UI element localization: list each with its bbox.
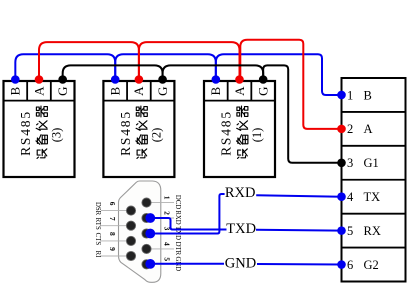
wire: blue RXD wire from DB9 pin 3 [151, 194, 225, 234]
svg-text:7: 7 [108, 217, 117, 221]
device box U2: RS485 instrument (2) [103, 81, 174, 177]
pin 5 of DB9 [142, 260, 151, 269]
svg-text:RX: RX [364, 224, 381, 238]
svg-text:GND: GND [225, 256, 256, 272]
svg-text:(1): (1) [250, 128, 264, 143]
node: terminal 5 dot [337, 226, 346, 235]
pin 3 of DB9 [142, 229, 151, 238]
wire: leader line pin 2 [147, 217, 175, 219]
wire: leader line pin 8 [101, 240, 131, 242]
wire: blue TXD wire from DB9 pin 2 [151, 218, 227, 230]
svg-text:A: A [31, 86, 46, 96]
wire: black G bus box(3) to box(2) [63, 65, 163, 79]
svg-text:TXD: TXD [226, 221, 256, 237]
node: blue junction dot pin 2 [145, 213, 155, 223]
svg-text:RTS: RTS [94, 218, 101, 230]
wire: blue B bus box(1) to terminal 1 B [216, 54, 342, 95]
svg-text:(3): (3) [50, 128, 64, 143]
node: A dot box (2) [135, 75, 144, 84]
node: blue junction dot pin 5 [145, 259, 155, 269]
node: terminal 4 dot [337, 192, 346, 201]
svg-text:RXD: RXD [174, 210, 181, 224]
svg-text:5: 5 [162, 257, 171, 261]
node: B dot box (3) [11, 75, 20, 84]
svg-text:TX: TX [364, 190, 381, 204]
wire: blue TXD wire to terminal 5 RX [256, 229, 342, 232]
node: G dot box (1) [259, 75, 268, 84]
wire: blue GND wire to terminal 6 G2 [257, 263, 342, 266]
pin 9 of DB9 [126, 251, 135, 260]
svg-text:RS485: RS485 [18, 110, 33, 156]
wire: leader line pin 9 [101, 255, 131, 257]
node: A dot box (1) [235, 75, 244, 84]
device box U3: RS485 instrument (3) [4, 81, 75, 177]
node: blue junction dot pin 3 [145, 229, 155, 239]
node: G dot box (3) [58, 75, 67, 84]
svg-text:6: 6 [347, 258, 353, 272]
svg-text:B: B [208, 87, 223, 96]
wire: black G bus box(1) to terminal 3 G1 [263, 65, 341, 162]
terminal block TB1 [342, 78, 406, 282]
svg-text:2: 2 [162, 211, 171, 215]
svg-text:B: B [8, 87, 23, 96]
wire: blue B bus box(2) to box(1) [115, 54, 216, 79]
label: Chinese she-bei-yi-qi box (1) [237, 106, 248, 158]
svg-text:5: 5 [347, 224, 353, 238]
svg-text:DCD: DCD [174, 195, 181, 209]
svg-text:8: 8 [108, 232, 117, 236]
svg-text:G2: G2 [364, 258, 379, 272]
label: Chinese she-bei-yi-qi box (3) [36, 106, 47, 158]
pin 7 of DB9 [126, 221, 135, 230]
svg-text:RS485: RS485 [118, 110, 133, 156]
wire: red A bus box(1) to terminal 2 A [240, 40, 341, 129]
device box U1: RS485 instrument (1) [204, 81, 275, 177]
svg-text:G1: G1 [364, 156, 379, 170]
wire: red A bus box(3) to box(2) [39, 42, 139, 79]
wire: black G bus box(2) to box(1) [163, 65, 264, 79]
svg-text:G: G [55, 87, 70, 96]
svg-text:G: G [255, 87, 270, 96]
node: terminal 3 dot [337, 158, 346, 167]
pin 1 of DB9 [142, 198, 151, 207]
svg-text:A: A [364, 122, 373, 136]
svg-text:9: 9 [108, 247, 117, 251]
node: B dot box (2) [111, 75, 120, 84]
wire: blue B bus box(3) to box(2) [15, 54, 115, 79]
wire: leader line pin 7 [101, 225, 131, 227]
svg-text:A: A [232, 86, 247, 96]
svg-text:RS485: RS485 [219, 110, 234, 156]
svg-text:4: 4 [347, 190, 354, 204]
wire: blue RXD wire to terminal 4 TX [256, 195, 341, 196]
svg-text:DTR: DTR [174, 242, 181, 256]
svg-text:4: 4 [162, 242, 171, 246]
svg-text:RXD: RXD [225, 185, 256, 201]
node: terminal 6 dot [337, 260, 346, 269]
wire: leader line pin 3 [147, 233, 175, 235]
svg-text:3: 3 [347, 156, 353, 170]
wire: leader line pin 1 [147, 202, 175, 204]
pin 2 of DB9 [142, 213, 151, 222]
connector J1: DB9 shell outline [119, 181, 161, 282]
svg-text:(2): (2) [150, 128, 164, 143]
wire: red A bus box(2) to box(1) [139, 42, 240, 79]
svg-text:A: A [131, 86, 146, 96]
label: Chinese she-bei-yi-qi box (2) [136, 106, 147, 158]
svg-text:CTS: CTS [94, 233, 101, 246]
pin 6 of DB9 [126, 206, 135, 215]
node: B dot box (1) [212, 75, 221, 84]
wire: leader line pin 4 [147, 248, 175, 250]
svg-text:B: B [108, 87, 123, 96]
svg-text:1: 1 [347, 88, 353, 102]
svg-text:B: B [364, 88, 372, 102]
svg-text:DSR: DSR [94, 202, 101, 216]
pin 4 of DB9 [142, 244, 151, 253]
svg-text:2: 2 [347, 122, 353, 136]
svg-text:6: 6 [108, 202, 117, 206]
svg-text:1: 1 [162, 196, 171, 200]
wire: blue GND wire from DB9 pin 5 [151, 263, 224, 265]
wire: leader line pin 5 [147, 263, 175, 265]
node: G dot box (2) [158, 75, 167, 84]
wire: leader line pin 6 [101, 210, 131, 212]
node: terminal 2 dot [337, 125, 346, 134]
pin 8 of DB9 [126, 236, 135, 245]
node: terminal 1 dot [337, 91, 346, 100]
svg-text:G: G [155, 87, 170, 96]
node: A dot box (3) [35, 75, 44, 84]
svg-text:RI: RI [94, 251, 101, 259]
